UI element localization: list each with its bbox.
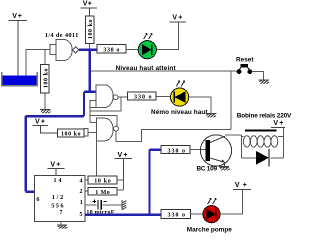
svg-text:6: 6 bbox=[36, 197, 39, 203]
blue net: gate1 out to latch and 556 pin6 bbox=[26, 50, 97, 192]
coil core bbox=[245, 129, 276, 131]
svg-text:330 o: 330 o bbox=[103, 48, 119, 54]
capacitor 10 microF bbox=[93, 200, 122, 210]
svg-text:V+: V+ bbox=[83, 0, 92, 7]
coil leads and freewheel loop bbox=[241, 127, 283, 158]
svg-text:V+: V+ bbox=[273, 120, 283, 127]
coil windings bbox=[243, 136, 277, 147]
power V+ left-middle bbox=[33, 126, 58, 133]
wire collector to coil bbox=[225, 134, 241, 136]
wire to Reset (long horizontal) bbox=[91, 70, 237, 72]
wire gate3 output to relay node bbox=[116, 129, 231, 141]
wire gate3 input stub bbox=[88, 131, 96, 133]
diode bbox=[256, 151, 269, 165]
svg-text:5: 5 bbox=[80, 212, 83, 218]
svg-text:BC 109: BC 109 bbox=[197, 165, 218, 172]
power V+ above 10ko bbox=[114, 159, 132, 180]
resistor 330 o (yellow LED) bbox=[128, 92, 157, 101]
svg-text:Bobine relais 220V: Bobine relais 220V bbox=[237, 113, 292, 120]
power V+ above pull-up bbox=[81, 8, 97, 16]
pin 7 ground bbox=[60, 222, 62, 226]
wire latch to pin4 bbox=[95, 139, 97, 176]
transistor BC 109 bbox=[200, 135, 231, 166]
svg-text:7: 7 bbox=[59, 210, 62, 216]
nand gate U1a (1/4 de 4011) bbox=[50, 40, 72, 61]
ground right of reset bbox=[259, 80, 270, 84]
resistor 10 ko bbox=[88, 176, 117, 185]
svg-text:1 Mo: 1 Mo bbox=[95, 190, 110, 196]
svg-text:330 o: 330 o bbox=[168, 213, 186, 219]
timer 1/2 556 box bbox=[35, 176, 85, 222]
resistor 330 o (base) bbox=[161, 146, 190, 155]
output node diamond bbox=[72, 47, 78, 53]
resistor 1 Mo bbox=[88, 188, 117, 197]
pin 2 stub bbox=[85, 190, 88, 192]
svg-text:100 ko: 100 ko bbox=[43, 69, 49, 89]
LED green (Niveau haut atteint) bbox=[138, 33, 156, 59]
pin 1 wire bbox=[85, 204, 97, 206]
svg-text:10 ko: 10 ko bbox=[94, 179, 111, 185]
pin 4 stub bbox=[85, 179, 88, 181]
nand gate U1b (latch upper) bbox=[90, 85, 118, 108]
power V+ relay bbox=[271, 126, 285, 128]
tank (water reservoir) bbox=[2, 72, 38, 86]
svg-text:1/2: 1/2 bbox=[52, 194, 64, 201]
svg-text:4: 4 bbox=[80, 179, 83, 185]
latch feedback wires bbox=[90, 97, 121, 126]
wire to green LED bbox=[126, 48, 138, 50]
probe wire to gate input bbox=[26, 49, 50, 75]
power V+ above 556 bbox=[48, 169, 65, 176]
svg-text:556: 556 bbox=[51, 202, 64, 209]
wire resistors right ends bbox=[117, 180, 124, 190]
blue net: pin 5 to pump drive bbox=[85, 150, 161, 215]
svg-text:Reset: Reset bbox=[236, 57, 254, 64]
wire gate2 out to 330 o bbox=[118, 96, 128, 98]
ground right of yellow LED bbox=[205, 114, 216, 118]
LED red (Marche pompe) bbox=[203, 198, 220, 222]
wire to red LED bbox=[190, 213, 203, 215]
svg-text:1/4 de 4011: 1/4 de 4011 bbox=[45, 32, 79, 39]
ground below pull-down bbox=[40, 110, 51, 114]
svg-text:V+: V+ bbox=[118, 152, 128, 159]
ground at emitter bbox=[219, 167, 230, 171]
svg-text:2: 2 bbox=[80, 189, 83, 195]
svg-text:Marche pompe: Marche pompe bbox=[187, 226, 232, 233]
svg-text:Némo niveau haut: Némo niveau haut bbox=[151, 109, 208, 116]
svg-text:V+: V+ bbox=[50, 161, 60, 168]
svg-text:330 o: 330 o bbox=[168, 148, 186, 154]
svg-text:V+: V+ bbox=[12, 13, 22, 20]
wire reset to ground bbox=[252, 72, 264, 80]
svg-text:V+: V+ bbox=[35, 119, 45, 126]
wire gate1 output (blue net) bbox=[79, 48, 97, 50]
svg-text:330 o: 330 o bbox=[134, 95, 152, 101]
resistor 330 o (pump LED) bbox=[161, 209, 190, 218]
resistor 100 ko (latch set) bbox=[57, 129, 84, 137]
resistor 100 ko (pull-up top) bbox=[85, 16, 94, 48]
wire reset drop bbox=[230, 71, 232, 129]
svg-text:V+: V+ bbox=[172, 14, 182, 21]
resistor 330 o (green LED) bbox=[97, 45, 126, 54]
wire base bbox=[190, 149, 206, 151]
power V+ green row bbox=[169, 21, 186, 23]
Reset button bbox=[237, 64, 253, 74]
svg-text:100 ko: 100 ko bbox=[61, 132, 81, 138]
resistor 100 ko (pull-down near tank) bbox=[41, 49, 50, 109]
power V+ top-left bbox=[9, 21, 28, 76]
wire yellow LED to ground bbox=[189, 97, 211, 114]
power V+ pump row bbox=[233, 189, 251, 191]
ground right of capacitor bbox=[122, 200, 126, 209]
wire green LED to V+ bbox=[156, 22, 178, 49]
nand gate U1c (latch lower) bbox=[84, 118, 119, 141]
svg-text:100 ko: 100 ko bbox=[88, 20, 94, 40]
wire to yellow LED bbox=[156, 96, 170, 98]
LED yellow (Némo niveau haut) bbox=[171, 81, 189, 107]
wire red LED to V+ bbox=[220, 190, 243, 214]
svg-text:1: 1 bbox=[80, 200, 83, 206]
